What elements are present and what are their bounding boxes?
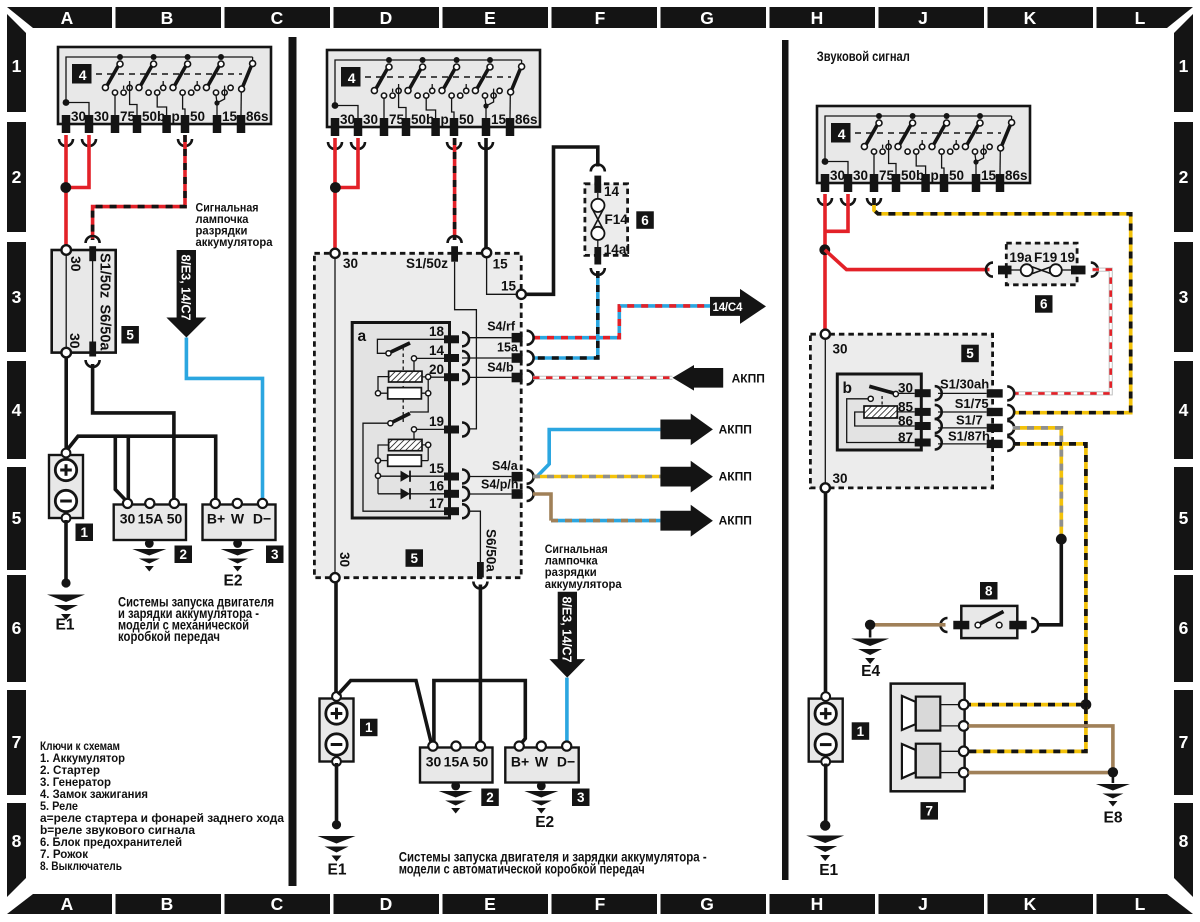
label square 5 [961, 345, 979, 363]
bottom border bar segment C [225, 894, 331, 914]
svg-text:3: 3 [577, 790, 585, 805]
battery 1 [49, 449, 83, 523]
connector below pin 30 [59, 139, 73, 146]
starter 2 box [420, 748, 493, 783]
generator ground E2 [236, 540, 239, 546]
svg-text:a: a [358, 328, 367, 345]
svg-text:K: K [1024, 894, 1037, 914]
left border bar row 2 [7, 122, 26, 232]
resistor1 right node [426, 391, 431, 396]
svg-text:Звуковой сигнал: Звуковой сигнал [817, 49, 910, 64]
svg-text:2: 2 [179, 547, 187, 562]
svg-text:E1: E1 [328, 862, 347, 879]
relay pin S6/50a [477, 562, 484, 578]
label square 5 [121, 326, 138, 344]
svg-text:G: G [700, 894, 714, 914]
svg-text:E: E [484, 894, 496, 914]
svg-text:3: 3 [271, 547, 279, 562]
svg-text:5: 5 [410, 551, 418, 566]
wire red from second pin 30 [66, 135, 89, 188]
switch a1 pivot [386, 351, 391, 356]
wire red from second pin 30 [825, 194, 848, 231]
svg-text:1: 1 [857, 724, 865, 739]
top border bar segment J [879, 7, 985, 28]
top border bar segment E [443, 7, 549, 28]
wire relay S6/50a to starter 50 [93, 364, 174, 499]
svg-text:8. Выключатель: 8. Выключатель [40, 861, 122, 873]
bottom border bar segment F [552, 894, 658, 914]
svg-text:B+: B+ [207, 511, 225, 527]
relay terminal 30 bottom [61, 348, 71, 358]
horn 2 body [916, 744, 941, 778]
svg-text:Ключи к схемам: Ключи к схемам [40, 741, 120, 753]
switch 8 pin right [1009, 621, 1026, 630]
svg-text:5: 5 [126, 328, 134, 343]
svg-text:3: 3 [12, 287, 22, 307]
wire link starter 30 up to rail [127, 436, 131, 499]
top border bar segment B [116, 7, 222, 28]
starter terminal 30 [123, 499, 132, 508]
svg-text:J: J [918, 894, 928, 914]
right border bar row 1 [1174, 14, 1193, 112]
svg-text:4. Замок зажигания: 4. Замок зажигания [40, 789, 148, 801]
relay inner box b [837, 374, 921, 450]
svg-text:S1/75: S1/75 [955, 396, 989, 411]
box a pin 19 [444, 426, 459, 434]
wire red from pin 30 to relay [333, 138, 337, 249]
box b pin 85 [915, 408, 931, 416]
switch a2 pivot [388, 421, 393, 426]
flow arrow 8/E3, 14/C7 [549, 592, 585, 678]
connector below pin 30 (second) [82, 139, 96, 146]
box a pin 15 [444, 473, 459, 481]
junction node horn feed [1081, 699, 1092, 710]
svg-text:C: C [271, 8, 284, 28]
relay terminal 30 top [330, 249, 339, 258]
wire contact to pin 30 [898, 392, 914, 394]
svg-text:30: 30 [68, 256, 84, 272]
svg-text:16: 16 [429, 479, 445, 494]
relay terminal 30 bottom [330, 573, 339, 582]
label square 2 [175, 546, 193, 564]
svg-text:E4: E4 [861, 663, 880, 680]
edge node 15 [517, 290, 526, 299]
svg-text:F: F [595, 8, 606, 28]
connector below pin 15 [479, 142, 493, 149]
wire fixed contact to pin 87 [847, 399, 915, 443]
switch 8 lever [981, 612, 1004, 624]
generator terminal B+ [211, 499, 220, 508]
svg-text:6: 6 [1179, 618, 1189, 638]
wire red from pin 30 [823, 194, 827, 331]
fuse block 6 dashed box [1006, 243, 1077, 285]
battery 1 [320, 692, 354, 766]
fuse pin 14a [594, 247, 601, 265]
svg-text:7. Рожок: 7. Рожок [40, 849, 88, 861]
wire brown horn 1 to E8 [969, 726, 1113, 768]
svg-text:2. Стартер: 2. Стартер [40, 765, 100, 777]
starter terminal 50 [476, 742, 485, 751]
bottom border bar segment H [770, 894, 876, 914]
relay internal wire 30-30 [824, 339, 826, 483]
horn 1 terminals [940, 704, 959, 706]
wire coil1 right to pin 20 [422, 376, 444, 378]
svg-text:F14: F14 [605, 212, 629, 227]
svg-text:S6/50a: S6/50a [484, 529, 499, 572]
svg-text:J: J [918, 8, 928, 28]
svg-text:1. Аккумулятор: 1. Аккумулятор [40, 753, 125, 765]
svg-text:30: 30 [120, 511, 136, 527]
wire red/black from pin 50 to relay S1/50z [93, 135, 185, 240]
wire pivot a2 loop to pin 17 [363, 423, 444, 511]
wire battery positive rail [338, 681, 432, 745]
svg-text:14al: 14al [604, 242, 630, 257]
wire resistor1 to switch a2 lever [410, 396, 428, 412]
svg-text:17: 17 [429, 496, 444, 511]
svg-text:1: 1 [12, 56, 22, 76]
svg-text:6: 6 [641, 213, 649, 228]
wire blue from arrow to generator D- [565, 678, 569, 742]
horn box 7 [891, 684, 965, 792]
svg-text:2: 2 [12, 167, 22, 187]
svg-text:4: 4 [12, 400, 22, 420]
connector below pin 30 [328, 142, 342, 149]
wire red/black from pin 50 to relay S1/50z [453, 138, 457, 240]
flow arrow 8/E3, 14/C7 [166, 250, 206, 338]
switch b lever [869, 386, 894, 393]
wire coil1 left to resistor1 [378, 377, 389, 391]
svg-text:30: 30 [833, 342, 848, 357]
svg-text:S6/50a: S6/50a [97, 305, 113, 352]
svg-text:3. Генератор: 3. Генератор [40, 777, 111, 789]
left border bar row 7 [7, 690, 26, 795]
svg-text:S1/7: S1/7 [956, 412, 983, 427]
svg-text:S1/87h: S1/87h [948, 428, 990, 443]
wire branch to starter 30 [115, 436, 126, 500]
flow arrow AKPP 4 [660, 505, 713, 537]
horn 2 terminals [940, 750, 959, 752]
svg-text:b: b [843, 380, 852, 397]
wire blue/brown to AKPP [551, 519, 660, 523]
junction node on red feed [819, 244, 830, 255]
relay terminal 30 bottom [821, 483, 830, 492]
box a pin 20 [444, 373, 459, 381]
svg-text:14: 14 [429, 343, 445, 358]
ground E1 [61, 578, 70, 587]
wire blue from arrow to generator D- [186, 338, 262, 499]
right border bar row 8 [1174, 803, 1193, 897]
right border bar row 3 [1174, 242, 1193, 352]
left border bar row 8 [7, 803, 26, 897]
relay terminal 30 top [821, 330, 830, 339]
left bus node [375, 473, 380, 478]
svg-text:8: 8 [1179, 831, 1189, 851]
ground E4 [865, 620, 875, 630]
svg-text:14/C4: 14/C4 [713, 302, 743, 314]
relay inner box a [352, 323, 449, 519]
panel separator line 2 [782, 40, 789, 880]
svg-text:коробкой передач: коробкой передач [118, 629, 220, 644]
svg-text:H: H [811, 8, 824, 28]
svg-text:L: L [1135, 8, 1146, 28]
svg-text:8: 8 [12, 831, 22, 851]
box b pin 86 [915, 422, 931, 430]
svg-text:W: W [535, 754, 549, 770]
diode D1 [381, 475, 444, 477]
svg-text:8/E3, 14/C7: 8/E3, 14/C7 [179, 255, 193, 321]
wire blue from S4/a to AKPP [533, 430, 660, 477]
svg-text:B: B [161, 8, 174, 28]
generator terminal W [537, 742, 546, 751]
relay internal wire S1/50z-S6/50a [92, 261, 94, 345]
wire red to fuse F19 [825, 250, 990, 270]
svg-text:1: 1 [365, 720, 373, 735]
wire starter 30 to generator B+ [434, 681, 525, 745]
right border bar row 7 [1174, 690, 1193, 795]
ground E1 [820, 820, 830, 830]
svg-text:лампочка: лампочка [196, 214, 250, 226]
svg-text:30: 30 [337, 552, 352, 567]
wire yellow/grey from S1/7 to horn switch [1013, 428, 1061, 536]
panel separator line 1 [289, 37, 297, 886]
wire red/white from fuse to S1/30ah [1013, 270, 1111, 394]
starter terminal 15A [451, 742, 460, 751]
svg-text:S4/rf: S4/rf [487, 320, 516, 334]
wire contact a2 down to coil 2 [413, 432, 415, 440]
relay coil 2 [389, 439, 422, 450]
wire red from second pin 30 [335, 138, 358, 188]
generator terminal D- [258, 499, 267, 508]
svg-text:5: 5 [1179, 508, 1189, 528]
wire yellow/black from S1/87h to horns [1013, 444, 1086, 702]
svg-text:18: 18 [429, 324, 445, 339]
starter 2 box [114, 505, 186, 541]
svg-text:7: 7 [12, 732, 22, 752]
svg-text:30: 30 [343, 256, 358, 271]
svg-text:АКПП: АКПП [732, 371, 765, 385]
svg-text:8: 8 [985, 584, 993, 599]
box b pin 30 [915, 389, 931, 397]
svg-text:19a: 19a [1009, 250, 1032, 265]
connector left of fuse [986, 263, 993, 277]
top border bar segment K [988, 7, 1094, 28]
label square 6 [1035, 295, 1053, 313]
wire yellow/black from pin 75 to S1/75 [874, 198, 1131, 413]
resistor 2 [388, 455, 422, 466]
box a pin 18 [444, 335, 459, 343]
bottom border bar segment L [1097, 894, 1194, 914]
svg-text:модели с автоматической коробк: модели с автоматической коробкой передач [399, 862, 645, 877]
svg-text:3: 3 [1179, 287, 1189, 307]
wire black from pin 15 to relay [484, 138, 488, 248]
bottom border bar segment J [879, 894, 985, 914]
wire coil to pin 85 [897, 411, 914, 413]
svg-text:5: 5 [966, 346, 974, 361]
switch 8 contact nodes [975, 622, 981, 628]
wire contact a1 to pin 14 [417, 357, 444, 359]
svg-text:разрядки: разрядки [545, 567, 597, 579]
right border bar row 6 [1174, 575, 1193, 682]
flow arrow AKPP 2 [660, 414, 713, 446]
generator ground E2 [540, 783, 543, 789]
right border bar row 5 [1174, 467, 1193, 570]
mechanical link dashed [402, 347, 404, 424]
flow arrow AKPP 3 [660, 461, 713, 493]
relay internal wire 30-30 [65, 254, 67, 348]
bottom border bar segment G [661, 894, 767, 914]
wire pin17 to S6/50a pin [470, 511, 480, 562]
svg-text:2: 2 [486, 790, 494, 805]
svg-text:30: 30 [833, 471, 848, 486]
coil2 right node [426, 442, 431, 447]
bottom border bar segment K [988, 894, 1094, 914]
wire coil2 left to resistor2 [378, 445, 389, 458]
starter ground [148, 540, 151, 546]
switch a1 contact [411, 356, 416, 361]
flow arrow 14/C4 [710, 289, 766, 324]
wire relay 30 to battery [334, 582, 338, 693]
label square 1 [360, 719, 378, 737]
connector below pin 50 [447, 142, 461, 149]
svg-text:5: 5 [12, 508, 22, 528]
wire terminal 15 to edge node 15 [487, 257, 517, 294]
coil1 right node [426, 374, 431, 379]
connector below pin 30 (second) [841, 198, 855, 205]
ignition switch 4 [327, 50, 540, 136]
svg-text:15: 15 [429, 461, 445, 476]
svg-text:19: 19 [1060, 250, 1075, 265]
svg-text:6: 6 [12, 618, 22, 638]
wire contact a2 to pin 19 [417, 428, 444, 430]
top border bar segment A [7, 7, 112, 28]
wire brown switch to ground E4 [872, 623, 946, 627]
svg-text:15: 15 [493, 256, 509, 271]
connector above fuse pin 14 [591, 165, 605, 172]
wire black node 15 to fuse F14 [526, 147, 598, 294]
generator terminal B+ [515, 742, 524, 751]
svg-text:8/E3, 14/C7: 8/E3, 14/C7 [560, 597, 574, 663]
left border bar row 3 [7, 242, 26, 352]
wire battery negative to ground E1 [824, 764, 828, 826]
svg-text:15A: 15A [138, 511, 164, 527]
svg-text:C: C [271, 894, 284, 914]
relay 5 (starter relay) box [52, 250, 116, 353]
starter terminal 30 [428, 742, 437, 751]
ignition switch 4 [817, 106, 1030, 192]
wire yellow/grey from S4/a to AKPP [533, 475, 660, 479]
svg-text:7: 7 [925, 804, 933, 819]
svg-text:15A: 15A [444, 754, 470, 770]
resistor1 left node [375, 391, 380, 396]
wire yellow/black junction to horn 2 [968, 707, 1086, 751]
wire relay 30 to battery [824, 493, 828, 693]
bottom border bar segment A [7, 894, 112, 914]
horn 2 bell [902, 744, 916, 778]
right border bar row 2 [1174, 122, 1193, 232]
svg-text:S1/50z: S1/50z [97, 253, 113, 298]
relay pin S6/50a [89, 342, 96, 357]
fuse pin 14 [594, 176, 601, 193]
flow arrow AKPP (in) [673, 365, 724, 391]
svg-text:1: 1 [1179, 56, 1189, 76]
generator 3 box [505, 748, 578, 783]
top border bar segment H [770, 7, 876, 28]
svg-text:B+: B+ [511, 754, 529, 770]
bottom border bar segment E [443, 894, 549, 914]
svg-text:E2: E2 [224, 573, 243, 590]
ground E1 [332, 820, 341, 829]
svg-text:50: 50 [167, 511, 183, 527]
wire battery negative to ground E1 [335, 763, 339, 825]
svg-text:D−: D− [557, 754, 575, 770]
connector below pin 75 [867, 198, 881, 205]
svg-text:7: 7 [1179, 732, 1189, 752]
switch a2 lever [393, 413, 410, 422]
fuse pin 19 [1071, 266, 1086, 275]
switch 8 box [961, 606, 1017, 638]
relay 5 (starter/reverse relay) dashed box [314, 253, 521, 577]
svg-text:30: 30 [426, 754, 442, 770]
relay 5 (horn relay) dashed box [810, 334, 992, 488]
connector right of fuse [1091, 263, 1098, 277]
switch 8 pin left [953, 621, 969, 630]
fuse F19 element [1012, 264, 1072, 276]
svg-text:E1: E1 [819, 862, 838, 879]
junction node on red feed [60, 182, 71, 193]
svg-text:H: H [811, 894, 824, 914]
svg-text:5. Реле: 5. Реле [40, 801, 78, 813]
svg-text:A: A [61, 894, 74, 914]
svg-text:разрядки: разрядки [196, 226, 248, 238]
svg-text:15a: 15a [497, 341, 519, 355]
svg-text:F19: F19 [1034, 250, 1057, 265]
connector below pin 30 [818, 198, 832, 205]
bottom border bar segment B [116, 894, 222, 914]
label square 3 [572, 789, 590, 807]
switch a2 contact [411, 427, 416, 432]
connector below pin 30 (second) [351, 142, 365, 149]
box a pin 16 [444, 490, 459, 498]
left border bar row 4 [7, 361, 26, 459]
mechanical link dashed [881, 396, 883, 406]
resistor2 left node [375, 458, 380, 463]
wire black junction to switch 8 [1038, 541, 1061, 625]
relay terminal 15 [482, 248, 491, 257]
left border bar row 1 [7, 14, 26, 112]
wire contact a1 down to coil 1 [413, 361, 415, 371]
fuse pin 19a [998, 266, 1012, 275]
svg-text:Сигнальная: Сигнальная [545, 544, 608, 556]
switch b moving contact node [893, 391, 898, 396]
svg-text:аккумулятора: аккумулятора [196, 237, 274, 249]
svg-text:4: 4 [1179, 400, 1189, 420]
generator terminal D- [562, 742, 571, 751]
svg-text:S4/b: S4/b [487, 360, 514, 374]
svg-text:АКПП: АКПП [719, 514, 752, 528]
svg-text:E1: E1 [56, 617, 75, 634]
svg-text:6: 6 [1040, 297, 1048, 312]
wire blue/black from fuse to 15a [533, 271, 598, 358]
starter terminal 15A [145, 499, 154, 508]
wire battery negative to ground E1 [64, 520, 68, 583]
generator 3 box [203, 505, 276, 541]
wire S1/50z pin to S4/rf net [455, 262, 477, 429]
right border bar row 4 [1174, 361, 1193, 459]
svg-text:D: D [380, 894, 393, 914]
svg-text:АКПП: АКПП [719, 422, 752, 436]
svg-text:50: 50 [473, 754, 489, 770]
starter ground [454, 783, 457, 789]
